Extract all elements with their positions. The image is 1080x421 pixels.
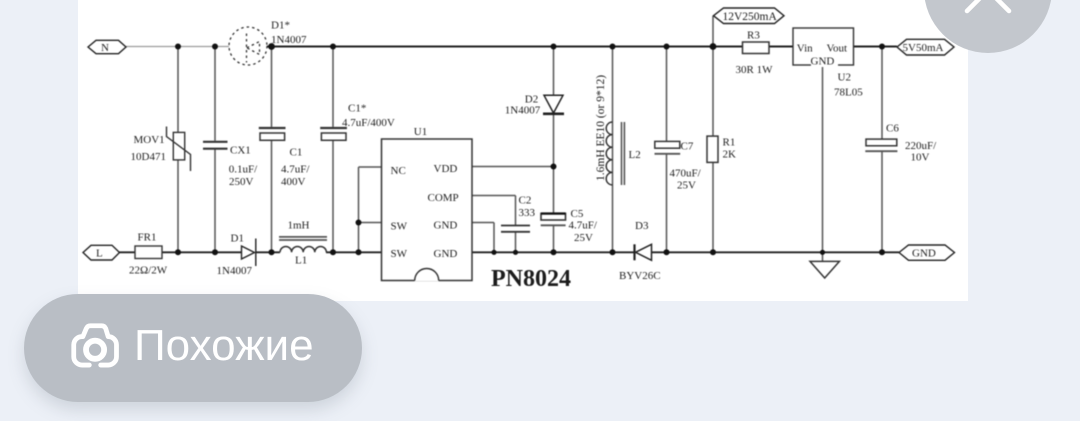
svg-text:L1: L1	[295, 255, 307, 267]
svg-text:Vout: Vout	[827, 43, 848, 55]
svg-text:GND: GND	[912, 248, 936, 260]
svg-text:4.7uF/400V: 4.7uF/400V	[342, 117, 395, 129]
svg-text:MOV1: MOV1	[134, 134, 165, 146]
svg-text:GND: GND	[811, 56, 835, 68]
svg-text:470uF/: 470uF/	[670, 168, 702, 180]
svg-text:1N4007: 1N4007	[217, 265, 253, 277]
svg-text:25V: 25V	[677, 180, 696, 192]
svg-text:12V250mA: 12V250mA	[723, 11, 778, 23]
svg-text:2K: 2K	[723, 149, 737, 161]
svg-text:C1: C1	[290, 147, 303, 159]
svg-text:10D471: 10D471	[131, 151, 166, 163]
svg-text:FR1: FR1	[138, 232, 157, 244]
svg-text:L: L	[96, 248, 103, 260]
svg-text:1.6mH EE10 (or 9*12): 1.6mH EE10 (or 9*12)	[595, 75, 607, 181]
svg-text:R1: R1	[723, 137, 736, 149]
svg-text:C2: C2	[519, 195, 532, 207]
svg-text:N: N	[101, 42, 109, 54]
svg-text:C6: C6	[886, 123, 899, 135]
svg-text:SW: SW	[391, 248, 408, 260]
svg-text:U1: U1	[414, 126, 427, 138]
svg-text:C7: C7	[681, 141, 694, 153]
svg-text:NC: NC	[391, 165, 406, 177]
svg-text:1N4007: 1N4007	[505, 105, 541, 117]
svg-text:30R 1W: 30R 1W	[736, 64, 774, 76]
svg-text:1N4007: 1N4007	[271, 34, 307, 46]
svg-text:4.7uF/: 4.7uF/	[281, 164, 310, 176]
svg-text:GND: GND	[434, 220, 458, 232]
svg-text:22Ω/2W: 22Ω/2W	[129, 265, 168, 277]
svg-text:COMP: COMP	[428, 192, 459, 204]
svg-text:250V: 250V	[229, 176, 254, 188]
svg-text:5V50mA: 5V50mA	[903, 42, 944, 54]
svg-text:D1*: D1*	[271, 20, 290, 32]
svg-text:78L05: 78L05	[834, 87, 863, 99]
svg-text:PN8024: PN8024	[491, 266, 571, 292]
svg-text:Vin: Vin	[797, 43, 813, 55]
svg-text:C5: C5	[571, 208, 584, 220]
svg-text:GND: GND	[434, 248, 458, 260]
svg-text:25V: 25V	[574, 232, 593, 244]
svg-text:333: 333	[519, 207, 536, 219]
svg-text:4.7uF/: 4.7uF/	[569, 220, 598, 232]
svg-text:220uF/: 220uF/	[905, 140, 937, 152]
svg-text:C1*: C1*	[348, 103, 366, 115]
svg-text:D3: D3	[635, 220, 649, 232]
svg-text:L2: L2	[629, 149, 641, 161]
svg-text:VDD: VDD	[434, 163, 458, 175]
svg-text:CX1: CX1	[230, 145, 251, 157]
svg-text:R3: R3	[747, 30, 760, 42]
svg-text:400V: 400V	[281, 176, 306, 188]
svg-text:1mH: 1mH	[288, 220, 310, 232]
svg-text:10V: 10V	[911, 152, 930, 164]
svg-text:D1: D1	[231, 233, 244, 245]
svg-text:BYV26C: BYV26C	[619, 270, 661, 282]
svg-text:0.1uF/: 0.1uF/	[229, 164, 258, 176]
svg-text:U2: U2	[838, 72, 851, 84]
svg-text:SW: SW	[391, 221, 408, 233]
